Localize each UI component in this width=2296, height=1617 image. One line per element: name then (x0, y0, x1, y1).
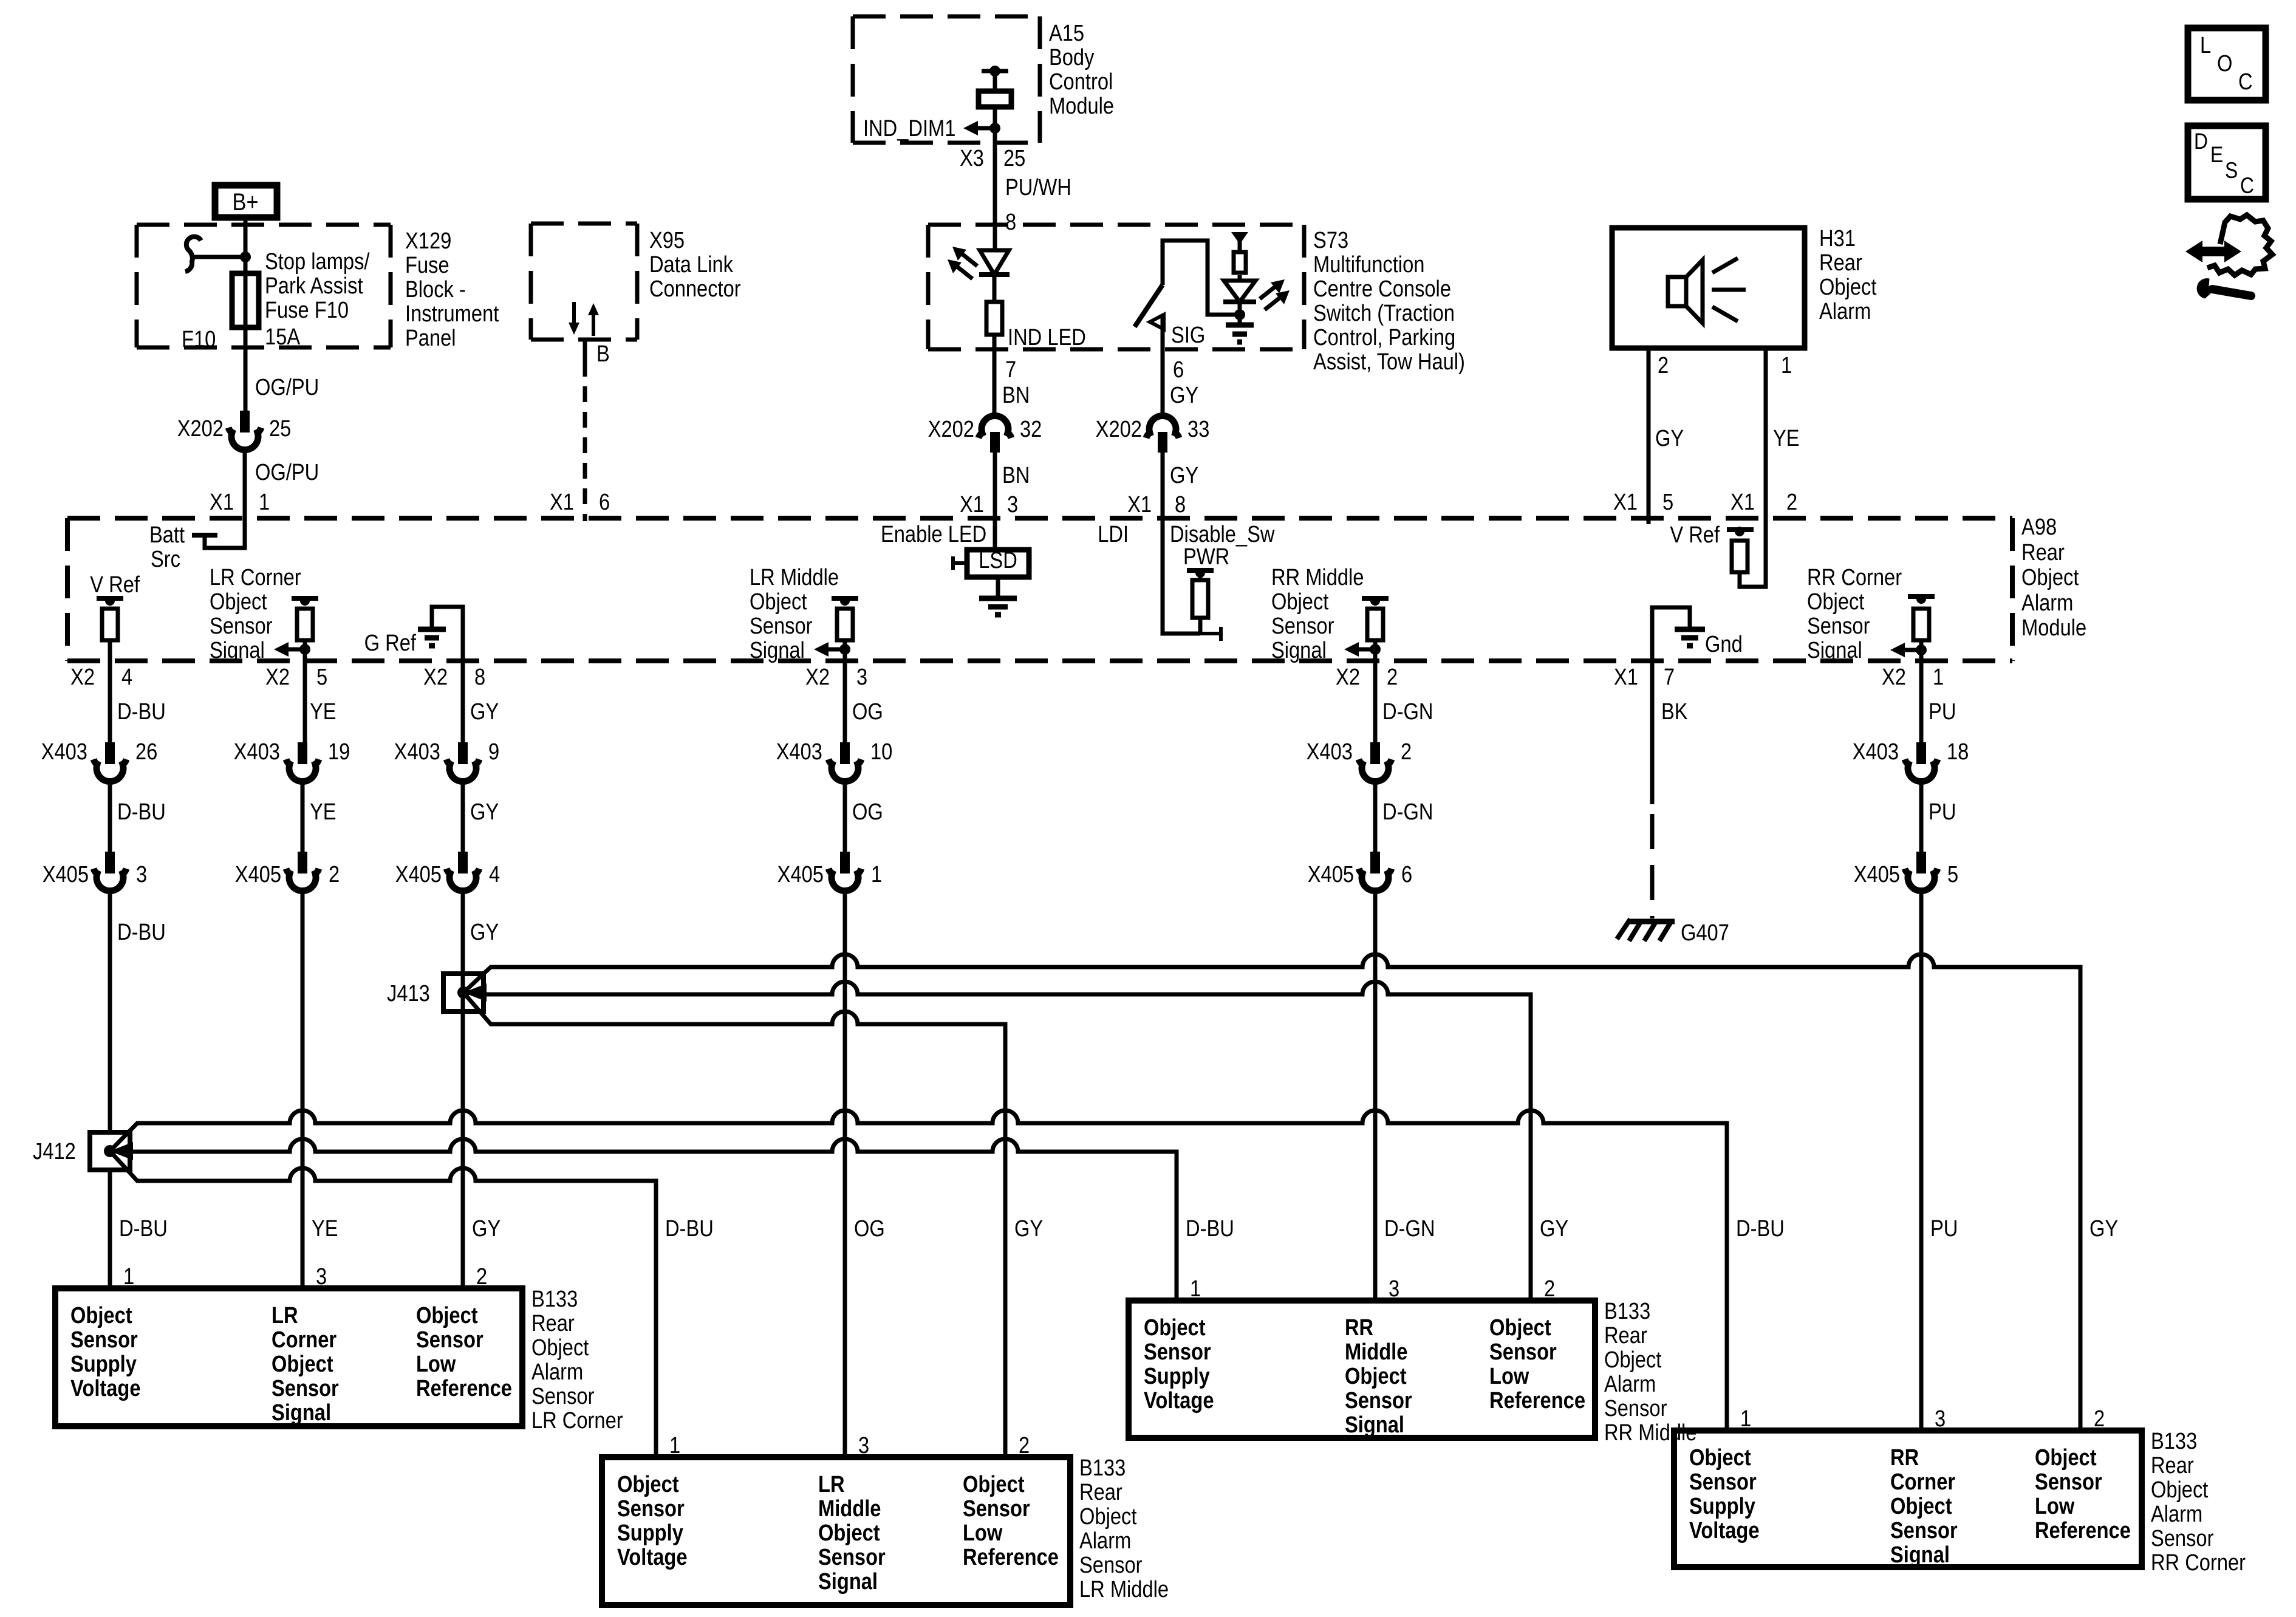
label X202 33 (1096, 416, 1210, 442)
svg-text:OG: OG (852, 799, 883, 825)
wire X403-19 to X405-2, YE (301, 782, 305, 852)
DESC reference box (2188, 126, 2266, 199)
svg-text:2: 2 (329, 861, 340, 887)
label X1 pin 2 (1731, 489, 1797, 515)
arrow to IND_DIM1 label (963, 121, 995, 135)
svg-text:Sensor: Sensor (1890, 1517, 1958, 1543)
sensor pin function labels (1689, 1444, 2131, 1568)
svg-text:Object: Object (1819, 274, 1877, 300)
label LDI (1098, 521, 1129, 547)
svg-text:B133: B133 (1079, 1455, 1126, 1481)
svg-text:GY: GY (470, 919, 499, 945)
label X2 pin 1 (1882, 664, 1944, 690)
svg-text:RR Middle: RR Middle (1271, 564, 1364, 590)
svg-text:Park Assist: Park Assist (265, 273, 363, 299)
svg-text:Alarm: Alarm (1604, 1371, 1656, 1397)
wire LR Middle input to X2-3 (843, 640, 847, 742)
RR Corner sensor input T-bar (1908, 594, 1935, 604)
wire X405-2 to LR Corner pin 3, YE (301, 892, 305, 1288)
svg-text:D-BU: D-BU (665, 1215, 714, 1242)
svg-text:X2: X2 (423, 664, 448, 690)
svg-text:Sensor: Sensor (70, 1327, 138, 1353)
svg-text:Sensor: Sensor (617, 1496, 685, 1522)
RR Corner signal arrow (1890, 643, 1927, 657)
svg-text:YE: YE (310, 799, 337, 825)
wire LED to resistor (993, 275, 997, 302)
svg-text:25: 25 (1003, 145, 1025, 171)
svg-text:BN: BN (1002, 462, 1030, 488)
LED light arrows (948, 247, 977, 279)
label V Ref right (1670, 522, 1720, 548)
wire X1-7 to G407, BK (1650, 661, 1655, 918)
label pin 2 (1658, 352, 1669, 378)
svg-text:OG/PU: OG/PU (255, 374, 319, 400)
rear object alarm sensor B133 RR Corner box (1674, 1431, 2142, 1567)
svg-text:Object: Object (1604, 1347, 1662, 1373)
label X2 pin 2 (1336, 664, 1398, 690)
svg-text:Sensor: Sensor (531, 1383, 595, 1409)
svg-text:Sensor: Sensor (2035, 1469, 2102, 1495)
svg-text:Instrument: Instrument (405, 301, 499, 327)
label BK (1661, 699, 1688, 725)
label GY (1655, 425, 1684, 451)
svg-text:9: 9 (488, 739, 499, 765)
wire resistor to X202-32 (993, 335, 997, 418)
J412 fan arrow (110, 1142, 133, 1160)
label A15 Body Control Module (1049, 20, 1114, 119)
svg-text:X129: X129 (405, 228, 451, 254)
LR Middle signal arrow (814, 642, 850, 657)
label Enable LED (881, 521, 986, 547)
rear object alarm sensor B133 LR Middle box (602, 1457, 1070, 1605)
RR Middle sensor input T-bar (1362, 596, 1389, 606)
svg-text:5: 5 (316, 664, 327, 690)
LOC reference box (2188, 28, 2266, 100)
clip symbol at fuse block feed (185, 237, 201, 272)
label sensor pin 1 (1740, 1406, 1751, 1432)
label GY below X405 (470, 919, 499, 945)
svg-text:LR Middle: LR Middle (1079, 1576, 1169, 1602)
label GY lower (1170, 462, 1198, 488)
svg-text:GY: GY (2089, 1215, 2118, 1242)
label pin 1 (1781, 352, 1792, 378)
svg-text:Sensor: Sensor (1345, 1387, 1412, 1414)
svg-text:Object: Object (210, 589, 267, 615)
label D-BU below X405 (117, 919, 166, 945)
svg-text:6: 6 (599, 489, 610, 515)
label sensor pin 1 (1190, 1276, 1201, 1302)
svg-text:X403: X403 (394, 739, 440, 765)
svg-text:Voltage: Voltage (1144, 1387, 1214, 1414)
svg-text:X405: X405 (395, 861, 442, 887)
multifunction switch S73 dashed box (928, 225, 1304, 349)
svg-text:Multifunction: Multifunction (1313, 251, 1424, 278)
svg-text:2: 2 (1544, 1276, 1555, 1302)
label J412 (33, 1138, 76, 1164)
connector X405 pin 1 (829, 852, 861, 891)
label B133 Rear Object Alarm Sensor RR Middle (1604, 1298, 1696, 1446)
svg-text:Supply: Supply (617, 1520, 683, 1546)
svg-text:LR: LR (818, 1471, 845, 1497)
svg-text:Enable LED: Enable LED (881, 521, 986, 547)
svg-text:GY: GY (472, 1215, 501, 1242)
svg-text:Control, Parking: Control, Parking (1313, 324, 1455, 350)
svg-text:3: 3 (1935, 1406, 1946, 1432)
connector X405 pin 4 (446, 852, 479, 891)
connector X405 pin 3 (94, 852, 126, 891)
svg-text:Block -: Block - (405, 276, 466, 303)
svg-text:B: B (596, 341, 610, 367)
svg-text:Reference: Reference (1489, 1387, 1585, 1414)
svg-text:Object: Object (1689, 1444, 1751, 1471)
svg-text:X2: X2 (265, 664, 290, 690)
svg-text:GY: GY (1014, 1215, 1043, 1242)
svg-text:3: 3 (1007, 491, 1018, 518)
D-BU bus top line J412 to RR Corner pin 1 (110, 1110, 1727, 1431)
svg-text:Corner: Corner (1890, 1469, 1955, 1495)
label RR Corner Object Sensor Signal (1807, 564, 1902, 663)
svg-text:YE: YE (310, 699, 337, 725)
svg-text:G Ref: G Ref (364, 630, 416, 656)
svg-text:X1: X1 (1127, 491, 1152, 518)
wire V Ref to X2-4 (108, 640, 112, 742)
wire X403-10 to X405-1, OG (843, 782, 847, 852)
svg-text:Sensor: Sensor (818, 1544, 886, 1570)
rear object alarm sensor B133 RR Middle box (1129, 1301, 1595, 1438)
svg-text:25: 25 (269, 415, 291, 442)
svg-text:Voltage: Voltage (1689, 1517, 1760, 1543)
svg-text:SIG: SIG (1171, 322, 1205, 348)
wire X403-2 to X405-6, D-GN (1373, 782, 1378, 852)
label B133 Rear Object Alarm Sensor LR Corner (531, 1286, 623, 1434)
svg-text:S: S (2225, 159, 2238, 183)
label X405 3 (43, 861, 147, 887)
svg-text:LR Corner: LR Corner (210, 564, 301, 590)
svg-text:2: 2 (1401, 739, 1412, 765)
wire X202-33 to A98 X1-8 (1161, 453, 1165, 524)
svg-text:Voltage: Voltage (70, 1375, 141, 1401)
S73 LED resistor (1234, 252, 1246, 273)
label PWR (1183, 544, 1229, 570)
connector X403 pin 2 (1359, 742, 1392, 782)
label X1 pin 7 (1614, 664, 1675, 690)
label D-GN mid (1382, 799, 1433, 825)
svg-text:4: 4 (121, 664, 132, 690)
label OG/PU upper (255, 374, 319, 400)
A15 internal supply T-bar (982, 66, 1008, 77)
label D-GN (1384, 1215, 1435, 1242)
svg-text:X202: X202 (1096, 416, 1142, 442)
label D-BU (1186, 1215, 1234, 1242)
svg-text:GY: GY (470, 699, 499, 725)
svg-text:Middle: Middle (1345, 1339, 1407, 1365)
label X1 pin 8 (1127, 491, 1186, 518)
switch connection U link (1163, 241, 1240, 315)
label X2 pin 3 (805, 664, 867, 690)
rear object alarm H31 box (1612, 228, 1805, 348)
svg-text:X403: X403 (41, 739, 87, 765)
dashed wire B to A98 X1-6 (583, 361, 587, 521)
svg-text:6: 6 (1401, 861, 1412, 887)
svg-text:Object: Object (70, 1302, 132, 1328)
sensor pin function labels (70, 1302, 512, 1426)
label IND LED (1008, 324, 1086, 350)
wire X405-3 to J412, D-BU (108, 892, 112, 1132)
switch blade S73 (1135, 285, 1163, 327)
label X405 5 (1854, 861, 1958, 887)
svg-text:Sensor: Sensor (210, 613, 273, 639)
svg-text:IND_DIM1: IND_DIM1 (863, 115, 955, 142)
down arrow inside X95 (569, 302, 579, 335)
svg-text:X3: X3 (960, 145, 984, 171)
speaker symbol (1668, 258, 1746, 323)
svg-text:Sensor: Sensor (416, 1327, 483, 1353)
svg-text:Rear: Rear (2151, 1452, 2194, 1479)
wire V Ref right to X1-2 (1740, 518, 1766, 587)
label RR Middle Object Sensor Signal (1271, 564, 1364, 663)
svg-text:B+: B+ (233, 188, 259, 216)
label S73 Multifunction Centre Console Switch (1313, 227, 1465, 375)
svg-text:Object: Object (1144, 1314, 1206, 1341)
svg-text:V Ref: V Ref (1670, 522, 1720, 548)
label OG (854, 1215, 885, 1242)
svg-text:Object: Object (2021, 564, 2079, 590)
label BN lower (1002, 462, 1030, 488)
label V Ref (90, 572, 140, 598)
diagram usage icon arrow and wrench (2185, 215, 2272, 298)
svg-text:X1: X1 (1731, 489, 1755, 515)
svg-text:19: 19 (328, 739, 350, 765)
fuse block X129 dashed box (137, 225, 391, 347)
svg-text:X405: X405 (235, 861, 281, 887)
RR Middle signal arrow (1344, 642, 1381, 657)
wire fuse to X202 pin 25, OG/PU (244, 327, 248, 411)
svg-text:PU: PU (1929, 799, 1956, 825)
svg-text:J412: J412 (33, 1138, 76, 1164)
V Ref resistor (102, 609, 118, 640)
splice J412 (90, 1132, 130, 1170)
svg-text:3: 3 (316, 1263, 327, 1290)
label GY (2089, 1215, 2118, 1242)
svg-text:Centre Console: Centre Console (1313, 276, 1451, 302)
svg-text:PU/WH: PU/WH (1005, 174, 1071, 200)
label YE (312, 1215, 338, 1242)
svg-text:Data Link: Data Link (649, 251, 733, 278)
V Ref internal T-bar (97, 596, 123, 606)
power terminal B+ (215, 185, 277, 217)
label X403 18 (1853, 739, 1969, 765)
connector X403 pin 9 (446, 742, 479, 782)
label X405 1 (777, 861, 882, 887)
data link connector X95 dashed box (531, 224, 637, 340)
A15 output driver symbol (979, 91, 1011, 107)
svg-text:D-BU: D-BU (1186, 1215, 1234, 1242)
label OG/PU lower (255, 459, 319, 485)
svg-text:Alarm: Alarm (1079, 1528, 1131, 1554)
svg-text:IND LED: IND LED (1008, 324, 1086, 350)
svg-text:X403: X403 (1853, 739, 1899, 765)
svg-text:E: E (2210, 143, 2223, 168)
S73 status LED (1223, 281, 1256, 302)
svg-text:Object: Object (617, 1471, 679, 1497)
svg-text:Rear: Rear (2021, 539, 2065, 566)
svg-text:1: 1 (1190, 1276, 1201, 1302)
svg-text:1: 1 (259, 489, 270, 515)
svg-text:10: 10 (870, 739, 892, 765)
svg-text:LDI: LDI (1098, 521, 1129, 547)
svg-text:RR: RR (1345, 1314, 1373, 1341)
svg-text:X403: X403 (776, 739, 822, 765)
label sensor pin 1 (123, 1263, 134, 1290)
GY bus bottom line J413 to LR Middle pin 2 (463, 993, 1005, 1457)
label Gnd (1705, 631, 1743, 657)
wire X1-1 to Batt Src (205, 518, 245, 548)
label sensor pin 3 (1389, 1276, 1399, 1302)
label X403 19 (234, 739, 350, 765)
svg-text:Sensor: Sensor (2151, 1525, 2214, 1551)
connector X405 pin 2 (286, 852, 319, 891)
connector X202 pin 33 (1146, 415, 1179, 453)
svg-text:X1: X1 (960, 491, 984, 518)
svg-text:Sensor: Sensor (1271, 613, 1334, 639)
svg-text:15A: 15A (265, 324, 300, 350)
svg-text:Body: Body (1049, 44, 1095, 70)
V Ref right T-bar (1727, 527, 1754, 536)
svg-text:X405: X405 (1308, 861, 1354, 887)
svg-text:Rear: Rear (1079, 1479, 1122, 1505)
svg-text:B133: B133 (2151, 1428, 2197, 1454)
svg-text:Object: Object (1807, 589, 1865, 615)
svg-text:X403: X403 (1307, 739, 1353, 765)
svg-text:Panel: Panel (405, 325, 456, 351)
wire X405-6 to RR Middle pin 3, D-GN (1373, 892, 1378, 1301)
svg-text:PWR: PWR (1183, 544, 1229, 570)
label X3 pin 25 (960, 145, 1025, 171)
svg-text:1: 1 (1740, 1406, 1751, 1432)
rear object alarm module A98 dashed box (67, 518, 2012, 661)
indicator LED IND (979, 250, 1010, 275)
ground G407 symbol (1617, 919, 1675, 941)
svg-text:Sensor: Sensor (1489, 1339, 1557, 1365)
junction node IND_DIM1 (989, 123, 1000, 134)
svg-text:LR Corner: LR Corner (531, 1407, 623, 1434)
svg-text:X405: X405 (1854, 861, 1900, 887)
label pin 7 (1005, 357, 1016, 383)
connector X403 pin 18 (1905, 742, 1938, 782)
label G Ref (364, 630, 416, 656)
svg-text:D: D (2194, 129, 2208, 154)
LR Middle input resistor (837, 609, 853, 640)
label sensor pin 3 (1935, 1406, 1946, 1432)
label D-GN above X403 (1382, 699, 1433, 725)
label X403 10 (776, 739, 893, 765)
wire H31 pin 1 to A98 X1-2, YE (1764, 348, 1768, 524)
svg-text:X1: X1 (550, 489, 574, 515)
G Ref hook wire (432, 607, 463, 742)
label Disable_Sw (1170, 521, 1275, 547)
label G407 (1681, 920, 1729, 946)
LSD driver box (967, 547, 1029, 577)
PWR right terminal stub (1200, 627, 1221, 641)
wire clip to B+ feed junction (193, 255, 245, 259)
svg-text:LR Middle: LR Middle (750, 564, 839, 590)
svg-text:D-BU: D-BU (117, 799, 166, 825)
label X95 Data Link Connector (649, 227, 741, 302)
svg-text:RR Corner: RR Corner (1807, 564, 1902, 590)
label pin 6 (1173, 357, 1184, 383)
svg-text:OG: OG (852, 699, 883, 725)
label sensor pin 1 (669, 1432, 680, 1458)
svg-text:Module: Module (1049, 93, 1114, 119)
svg-text:Object: Object (963, 1471, 1025, 1497)
svg-text:Sensor: Sensor (750, 613, 813, 639)
label X1 pin 3 (960, 491, 1018, 518)
svg-text:Low: Low (963, 1520, 1003, 1546)
svg-text:X1: X1 (1614, 664, 1638, 690)
svg-text:8: 8 (474, 664, 485, 690)
label GY mid (470, 799, 499, 825)
svg-text:G407: G407 (1681, 920, 1729, 946)
svg-text:Object: Object (531, 1335, 589, 1361)
svg-text:Module: Module (2021, 615, 2086, 641)
svg-text:Gnd: Gnd (1705, 631, 1743, 657)
S73 internal ground (1226, 325, 1254, 342)
svg-text:1: 1 (1781, 352, 1792, 378)
LR Corner input resistor (297, 609, 313, 640)
label B133 Rear Object Alarm Sensor LR Middle (1079, 1455, 1169, 1602)
label X1 pin 5 (1613, 489, 1673, 515)
label D-BU above X403 (117, 699, 166, 725)
label YE mid (310, 799, 337, 825)
label IND_DIM1 (863, 115, 955, 142)
svg-text:2: 2 (1019, 1432, 1030, 1458)
svg-text:2: 2 (1786, 489, 1797, 515)
label D-BU mid (117, 799, 166, 825)
svg-text:O: O (2217, 50, 2232, 77)
svg-text:H31: H31 (1819, 225, 1856, 251)
svg-text:X403: X403 (234, 739, 280, 765)
wire RR Middle input to X2-2 (1373, 640, 1378, 742)
svg-text:Src: Src (151, 546, 180, 572)
svg-text:Sensor: Sensor (1144, 1339, 1211, 1365)
svg-text:BK: BK (1661, 699, 1688, 725)
label X405 6 (1308, 861, 1412, 887)
svg-text:2: 2 (1387, 664, 1398, 690)
svg-text:Voltage: Voltage (617, 1544, 688, 1570)
label LR Corner Object Sensor Signal (210, 564, 301, 663)
svg-text:3: 3 (858, 1432, 869, 1458)
label sensor pin 2 (2094, 1406, 2105, 1432)
svg-text:Object: Object (750, 589, 807, 615)
svg-text:Corner: Corner (272, 1327, 337, 1353)
body control module A15 dashed box (853, 16, 1040, 143)
svg-text:Low: Low (1489, 1363, 1529, 1389)
svg-text:1: 1 (123, 1263, 134, 1290)
svg-text:Sensor: Sensor (963, 1496, 1030, 1522)
label D-BU (1736, 1215, 1785, 1242)
svg-text:Supply: Supply (1689, 1493, 1755, 1519)
sensor pin function labels (1144, 1314, 1585, 1438)
label GY (472, 1215, 501, 1242)
label PU mid (1929, 799, 1956, 825)
svg-text:Signal: Signal (818, 1568, 878, 1595)
S73 LED light arrows (1260, 279, 1290, 310)
label PU above X403 (1929, 699, 1956, 725)
svg-text:D-BU: D-BU (117, 699, 166, 725)
LSD left terminal stub (953, 556, 967, 570)
svg-text:D-GN: D-GN (1382, 799, 1433, 825)
svg-text:Sensor: Sensor (1604, 1395, 1667, 1421)
